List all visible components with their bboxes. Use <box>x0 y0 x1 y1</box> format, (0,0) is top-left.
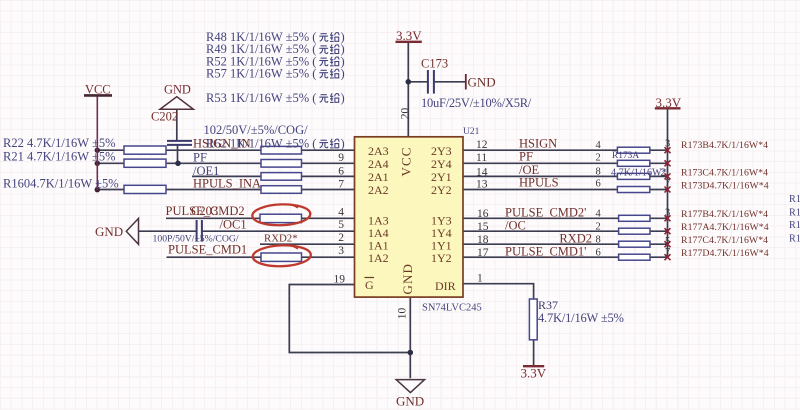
svg-text:11: 11 <box>476 152 487 164</box>
svg-text:DIR: DIR <box>435 279 456 293</box>
svg-text:2A4: 2A4 <box>368 157 389 171</box>
svg-text:R1: R1 <box>789 233 800 244</box>
svg-text:PULSE_CMD1': PULSE_CMD1' <box>505 245 586 259</box>
svg-text:2: 2 <box>596 153 601 164</box>
svg-text:17: 17 <box>477 247 489 259</box>
svg-text:20: 20 <box>400 108 412 120</box>
svg-text:2Y4: 2Y4 <box>431 157 452 171</box>
svg-text:C203: C203 <box>191 204 218 218</box>
svg-text:R1: R1 <box>789 194 800 205</box>
svg-text:8: 8 <box>596 235 601 246</box>
svg-text:3.3V: 3.3V <box>656 95 682 110</box>
svg-text:1: 1 <box>477 273 483 285</box>
svg-text:4.7K/1/16W*: 4.7K/1/16W* <box>611 168 667 179</box>
svg-text:2: 2 <box>338 232 344 244</box>
svg-text:VCC: VCC <box>85 83 110 97</box>
svg-text:VCC: VCC <box>399 146 414 176</box>
svg-text:PF: PF <box>519 150 533 164</box>
svg-text:2Y1: 2Y1 <box>431 170 452 184</box>
svg-text:GND: GND <box>164 83 191 97</box>
svg-text:PULSE_CMD1: PULSE_CMD1 <box>168 243 247 257</box>
svg-text:): ) <box>341 67 345 81</box>
svg-text:HSIGN_IN: HSIGN_IN <box>193 137 251 151</box>
svg-text:GND: GND <box>95 224 123 239</box>
svg-text:19: 19 <box>334 274 346 286</box>
svg-text:2A3: 2A3 <box>368 144 389 158</box>
svg-text:2A1: 2A1 <box>368 170 389 184</box>
svg-text:7: 7 <box>338 179 344 191</box>
svg-text:C173: C173 <box>421 57 448 71</box>
svg-text:4.7K/1/16W ±5%: 4.7K/1/16W ±5% <box>538 311 624 325</box>
svg-text:R1604.7K/1/16W ±5%: R1604.7K/1/16W ±5% <box>3 177 119 191</box>
svg-text:R53 1K/1/16W ±5% (: R53 1K/1/16W ±5% ( <box>206 91 316 105</box>
svg-text:R1: R1 <box>789 207 800 218</box>
svg-text:R173D4.7K/1/16W*4: R173D4.7K/1/16W*4 <box>681 180 769 191</box>
svg-text:/OC1: /OC1 <box>220 218 247 232</box>
svg-text:6: 6 <box>338 165 344 177</box>
svg-text:PULSE_CMD2': PULSE_CMD2' <box>505 206 586 220</box>
svg-text:7: 7 <box>665 247 670 258</box>
svg-text:2A2: 2A2 <box>368 183 389 197</box>
svg-text:R177A4.7K/1/16W*4: R177A4.7K/1/16W*4 <box>681 222 769 233</box>
svg-text:16: 16 <box>477 208 489 220</box>
svg-text:3.3V: 3.3V <box>396 28 422 43</box>
svg-text:GND: GND <box>396 394 424 409</box>
svg-text:6: 6 <box>596 179 601 190</box>
svg-text:5: 5 <box>665 236 670 247</box>
svg-text:5: 5 <box>338 219 344 231</box>
svg-text:3: 3 <box>665 208 670 219</box>
svg-text:GND: GND <box>468 75 496 90</box>
svg-text:): ) <box>341 137 345 151</box>
svg-text:12: 12 <box>476 139 488 151</box>
svg-text:8: 8 <box>596 167 601 178</box>
svg-text:R37: R37 <box>538 298 558 312</box>
svg-text:R1: R1 <box>789 220 800 231</box>
svg-text:RXD2: RXD2 <box>559 232 592 246</box>
svg-text:R177B4.7K/1/16W*4: R177B4.7K/1/16W*4 <box>681 209 768 220</box>
svg-text:R177D4.7K/1/16W*4: R177D4.7K/1/16W*4 <box>681 248 769 259</box>
svg-text:/OC: /OC <box>505 219 526 233</box>
svg-text:4: 4 <box>596 140 602 151</box>
svg-text:R177C4.7K/1/16W*4: R177C4.7K/1/16W*4 <box>681 235 768 246</box>
svg-text:4: 4 <box>338 207 344 219</box>
svg-text:14: 14 <box>476 167 488 179</box>
svg-text:2Y2: 2Y2 <box>431 183 452 197</box>
svg-text:R21 4.7K/1/16W ±5%: R21 4.7K/1/16W ±5% <box>3 150 116 164</box>
svg-text:6: 6 <box>596 248 601 259</box>
svg-text:HSIGN: HSIGN <box>519 137 557 151</box>
svg-text:): ) <box>341 91 345 105</box>
svg-text:18: 18 <box>477 234 489 246</box>
svg-text:R22 4.7K/1/16W ±5%: R22 4.7K/1/16W ±5% <box>3 136 116 150</box>
svg-text:R173B4.7K/1/16W*4: R173B4.7K/1/16W*4 <box>681 140 768 151</box>
svg-text:7: 7 <box>665 178 670 189</box>
svg-text:R173A: R173A <box>612 151 639 161</box>
svg-text:SN74LVC245: SN74LVC245 <box>422 303 482 314</box>
svg-text:9: 9 <box>338 152 344 164</box>
svg-text:R173C4.7K/1/16W*4: R173C4.7K/1/16W*4 <box>681 168 768 179</box>
svg-text:1A2: 1A2 <box>368 251 389 265</box>
svg-text:10uF/25V/±10%/X5R/: 10uF/25V/±10%/X5R/ <box>421 96 532 110</box>
svg-text:4: 4 <box>596 209 602 220</box>
svg-text:2: 2 <box>596 222 601 233</box>
svg-text:102/50V/±5%/COG/: 102/50V/±5%/COG/ <box>204 123 309 137</box>
svg-text:1Y2: 1Y2 <box>431 251 452 265</box>
svg-text:PF: PF <box>193 151 207 165</box>
svg-text:GND: GND <box>400 263 415 294</box>
svg-text:U21: U21 <box>463 127 480 137</box>
svg-text:10: 10 <box>397 308 409 320</box>
svg-text:13: 13 <box>476 179 488 191</box>
svg-text:C202: C202 <box>151 110 178 124</box>
svg-text:HPULS_INA: HPULS_INA <box>193 177 261 191</box>
svg-text:15: 15 <box>477 221 489 233</box>
svg-text:3: 3 <box>338 245 344 257</box>
svg-text:2Y3: 2Y3 <box>431 144 452 158</box>
svg-text:G: G <box>365 278 374 292</box>
svg-text:3.3V: 3.3V <box>521 366 547 381</box>
svg-text:HPULS: HPULS <box>519 176 559 190</box>
svg-text:R57 1K/1/16W ±5% (: R57 1K/1/16W ±5% ( <box>206 67 316 81</box>
svg-text:3: 3 <box>665 139 670 150</box>
svg-text:RXD2*: RXD2* <box>264 233 298 245</box>
